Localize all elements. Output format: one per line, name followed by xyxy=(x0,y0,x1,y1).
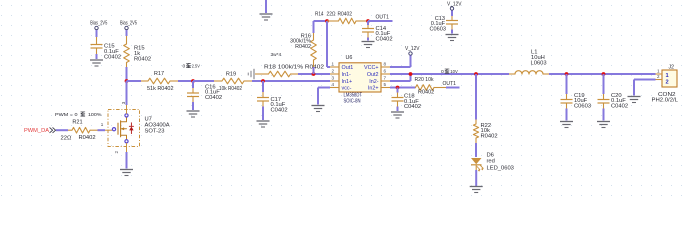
ground (CON2) xyxy=(628,97,641,103)
svg-text:U6: U6 xyxy=(346,55,353,61)
svg-text:C0402: C0402 xyxy=(104,55,121,61)
power port V_12V (U6 pin8) xyxy=(405,46,420,67)
op-amp U6 box xyxy=(339,63,381,92)
svg-text:1: 1 xyxy=(101,122,104,127)
svg-text:Out2: Out2 xyxy=(367,72,379,78)
svg-text:100%: 100% xyxy=(88,112,102,118)
capacitor C20 xyxy=(598,74,629,121)
svg-text:Bias_2V5: Bias_2V5 xyxy=(120,20,137,26)
junction node D (R16/R18/In1-) xyxy=(312,72,316,76)
ground (U6 pin4) xyxy=(312,106,325,112)
ground (C16) xyxy=(187,111,200,117)
svg-text:C0402: C0402 xyxy=(271,107,288,113)
net label 0-2.5V xyxy=(183,63,201,69)
wire node A to R17 xyxy=(127,80,142,82)
svg-text:22Ω: 22Ω xyxy=(327,12,336,18)
ground (C15) xyxy=(90,60,103,66)
svg-text:0: 0 xyxy=(441,69,444,75)
resistor R21 xyxy=(61,120,98,142)
connector J2 pins xyxy=(656,69,669,86)
wire R16 top to R14 xyxy=(314,20,328,22)
transistor U7 labels xyxy=(145,117,170,135)
resistor R22 xyxy=(473,120,497,158)
junction node E (Out1 riser) xyxy=(325,19,329,23)
svg-text:C0402: C0402 xyxy=(205,95,222,101)
connector CON2 labels xyxy=(652,92,679,104)
svg-text:R0402: R0402 xyxy=(481,133,498,139)
ground (C14) xyxy=(362,42,375,48)
ground (top) xyxy=(260,14,273,20)
junction node I (R22 tap) xyxy=(474,72,478,76)
svg-text:R14: R14 xyxy=(315,12,324,18)
wire U6 pin1 riser xyxy=(327,21,330,67)
svg-text:51k R0402: 51k R0402 xyxy=(147,86,174,92)
svg-text:2: 2 xyxy=(666,79,669,85)
transistor Q1 drain pin xyxy=(125,105,128,117)
op-amp U6 pin names xyxy=(342,65,379,92)
resistor R20 xyxy=(415,77,447,96)
capacitor C18 xyxy=(392,88,422,112)
wire L1 to CON2 xyxy=(549,73,656,75)
wire PWM_DA to R21 xyxy=(56,129,68,131)
transistor Q1 source pin xyxy=(125,140,128,152)
junction node J (C19 tap) xyxy=(565,72,569,76)
svg-text:10V: 10V xyxy=(450,69,458,75)
svg-text:OUT1: OUT1 xyxy=(443,81,457,87)
ground (Q1 source) xyxy=(120,170,133,176)
svg-text:SOT-23: SOT-23 xyxy=(145,129,165,135)
svg-text:VCC+: VCC+ xyxy=(364,65,379,71)
svg-text:3: 3 xyxy=(121,101,126,104)
svg-text:red: red xyxy=(487,158,495,164)
svg-text:C0402: C0402 xyxy=(376,36,393,42)
wire U6 pin6 riser xyxy=(390,74,411,81)
svg-text:1: 1 xyxy=(657,69,660,74)
svg-text:LED_0603: LED_0603 xyxy=(487,165,514,171)
transistor U7 dashed box xyxy=(108,110,140,147)
pin number 1 (Q1 gate) xyxy=(101,122,104,127)
svg-text:2.5V: 2.5V xyxy=(192,63,201,69)
svg-text:C0603: C0603 xyxy=(574,103,591,109)
annotation 3w*4 xyxy=(271,52,282,58)
connector J2 designator xyxy=(669,65,675,71)
svg-text:R19: R19 xyxy=(226,71,236,77)
op-amp U6 pins left xyxy=(330,62,339,88)
svg-text:In2-: In2- xyxy=(369,79,378,85)
svg-text:2: 2 xyxy=(657,74,660,79)
svg-text:V_12V: V_12V xyxy=(447,2,462,8)
capacitor C16 xyxy=(187,81,222,110)
svg-text:V_12V: V_12V xyxy=(405,46,420,52)
resistor R19 xyxy=(193,71,252,92)
svg-text:R21: R21 xyxy=(72,120,82,126)
svg-text:0: 0 xyxy=(183,63,186,69)
wire U6 pin5 to R20 xyxy=(390,87,416,89)
svg-text:vcc-: vcc- xyxy=(342,86,352,92)
resistor R18 xyxy=(255,65,324,77)
svg-text:1: 1 xyxy=(666,73,669,79)
svg-text:3w*4: 3w*4 xyxy=(271,52,282,58)
ground (C17) xyxy=(257,121,270,127)
capacitor C19 xyxy=(561,74,592,121)
resistor R17 xyxy=(141,71,193,92)
LED D6 xyxy=(471,152,514,186)
svg-text:In1-: In1- xyxy=(342,72,351,78)
svg-text:2: 2 xyxy=(114,151,119,154)
wire U6 pin7 Out2 rail xyxy=(390,73,509,75)
annotation PWM duty xyxy=(55,112,102,118)
svg-text:R0402: R0402 xyxy=(295,44,311,50)
svg-text:2: 2 xyxy=(332,69,335,74)
wire top edge to ground xyxy=(265,0,267,13)
resistor R15 xyxy=(124,36,151,80)
svg-text:R0402: R0402 xyxy=(134,57,151,63)
svg-text:PWM = 0: PWM = 0 xyxy=(55,112,78,118)
wire R20 to OUT1 stub xyxy=(446,87,460,89)
svg-text:R0402: R0402 xyxy=(338,12,353,18)
wire R18 to U6 pin2 xyxy=(314,73,331,75)
capacitor C14 xyxy=(362,21,393,42)
svg-text:C0402: C0402 xyxy=(404,104,421,110)
net label OUT1 (top) xyxy=(376,15,390,21)
wire CON2 pin2 to ground xyxy=(634,80,656,96)
pin number 3 (Q1 drain) xyxy=(121,101,126,104)
junction node A (R15/R17/Q1 drain) xyxy=(125,79,129,83)
wire R19 to U6 pin3 xyxy=(252,80,330,82)
wire U6 pin8 to V_12V xyxy=(390,66,411,68)
wire node A to Q1 drain xyxy=(126,81,128,105)
ground (C18) xyxy=(391,112,404,118)
svg-text:10k R0402: 10k R0402 xyxy=(219,86,242,92)
junction node K (C20 tap) xyxy=(602,72,606,76)
op-amp U6 pins right xyxy=(381,62,390,88)
resistor R16 xyxy=(290,21,316,74)
svg-text:R18 100k/1% R0402: R18 100k/1% R0402 xyxy=(264,65,324,71)
net label 0-10V xyxy=(441,69,458,75)
op-amp U6 part labels xyxy=(344,93,363,105)
junction node G (In2-/Out2) xyxy=(409,72,413,76)
svg-text:In1+: In1+ xyxy=(342,79,353,85)
ground (C13) xyxy=(446,35,459,41)
capacitor C15 xyxy=(91,37,122,61)
svg-text:SOIC-8N: SOIC-8N xyxy=(344,98,361,104)
svg-text:5: 5 xyxy=(384,82,387,87)
inductor L1 xyxy=(509,50,549,75)
wire node I to R22 xyxy=(475,74,477,120)
ground (D6) xyxy=(470,187,483,193)
junction node F (R14/C14/OUT1) xyxy=(366,19,370,23)
svg-text:In2+: In2+ xyxy=(368,86,379,92)
svg-text:PH2.0/2/L: PH2.0/2/L xyxy=(652,98,679,104)
svg-text:8: 8 xyxy=(384,62,387,67)
ground (C19) xyxy=(560,122,573,128)
capacitor C13 xyxy=(430,16,458,34)
svg-text:22Ω: 22Ω xyxy=(61,136,72,142)
transistor Q1 body xyxy=(118,117,127,140)
capacitor C17 xyxy=(257,81,288,120)
ground (R18 left, sideways) xyxy=(248,69,254,79)
svg-text:OUT1: OUT1 xyxy=(376,15,390,21)
power port Bias_2V5 (R15) xyxy=(120,20,137,36)
svg-text:Out1: Out1 xyxy=(342,65,354,71)
ground (C20) xyxy=(597,122,610,128)
svg-text:L0603: L0603 xyxy=(531,60,547,66)
svg-text:R0402: R0402 xyxy=(79,135,96,141)
pin number 2 (Q1 source) xyxy=(114,151,119,154)
transistor Q1 body diode xyxy=(129,123,133,134)
wire U6 pin4 to ground xyxy=(318,88,330,105)
svg-text:R17: R17 xyxy=(154,71,164,77)
junction node H (C18 tap) xyxy=(396,86,400,90)
svg-text:C0603: C0603 xyxy=(430,27,446,33)
svg-text:R0402: R0402 xyxy=(418,90,434,96)
transistor Q1 gate pin xyxy=(105,128,116,131)
wire Q1 source to ground xyxy=(126,152,128,169)
power port Bias_2V5 (C15) xyxy=(90,20,107,37)
op-amp U6 designator xyxy=(346,55,353,61)
net label OUT1 (right) xyxy=(443,81,457,87)
svg-text:3: 3 xyxy=(332,76,335,81)
wire R21 to Q1 gate xyxy=(98,129,106,131)
svg-text:Bias_2V5: Bias_2V5 xyxy=(90,20,107,26)
junction node C (C17 tap) xyxy=(261,79,265,83)
svg-text:J2: J2 xyxy=(669,65,675,71)
svg-text:4: 4 xyxy=(332,82,335,87)
junction node B (R17/C16/R19) xyxy=(191,79,195,83)
svg-text:C0402: C0402 xyxy=(611,103,628,109)
svg-text:R20 10k: R20 10k xyxy=(415,77,434,83)
svg-text:1: 1 xyxy=(332,62,335,67)
wire node F to OUT1 stub xyxy=(368,20,393,22)
svg-text:7: 7 xyxy=(384,76,387,81)
power port V_12V (C13) xyxy=(447,2,462,16)
svg-text:PWM_DA: PWM_DA xyxy=(24,128,49,134)
port PWM_DA xyxy=(24,128,56,134)
connector J2 box xyxy=(662,70,677,87)
svg-text:6: 6 xyxy=(384,69,387,74)
resistor R14 xyxy=(315,12,368,24)
